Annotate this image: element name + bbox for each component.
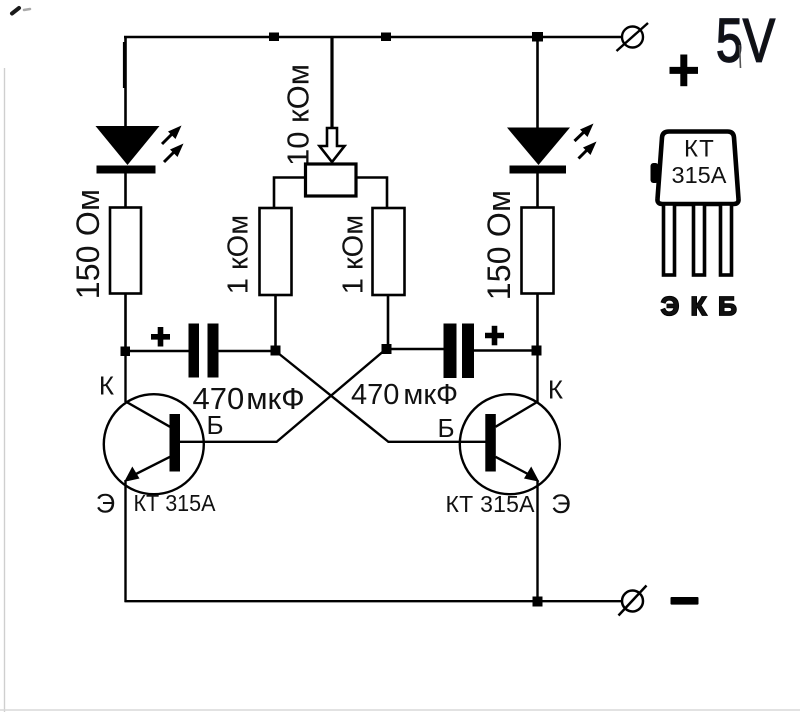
wire: R3 to node A3 <box>387 295 390 350</box>
LED D2 light arrows <box>575 124 597 159</box>
svg-text:Б: Б <box>437 413 454 443</box>
package leg E <box>664 204 675 275</box>
label: C1 polarity plus <box>151 327 170 347</box>
label: 470 mkF left <box>193 381 305 416</box>
node: top rail junction left <box>269 33 279 42</box>
wire: R1 to node A1 <box>124 294 127 353</box>
wire: cross diagonal A2 to right base <box>276 351 389 442</box>
label: 150 Om left <box>70 189 106 299</box>
node A2 <box>271 346 281 356</box>
wire: center stub from rail to pot arrow <box>330 37 333 130</box>
label: 5V <box>716 7 775 75</box>
node A4 <box>532 346 542 356</box>
label: KT inside package <box>684 136 715 163</box>
svg-text:315А: 315А <box>672 162 727 188</box>
node A3 <box>382 344 392 354</box>
wire: LED2 anode from rail <box>536 37 539 128</box>
node A1: left cap junction <box>121 347 131 357</box>
capacitor C2 470uF plates <box>444 324 475 379</box>
svg-text:К: К <box>548 375 563 405</box>
LED D2 <box>507 128 570 174</box>
label: 1 kOm right <box>338 215 370 294</box>
wire: Q2 collector up to node A4 <box>536 351 538 402</box>
label: K of Q2 <box>548 375 563 405</box>
label: B of Q1 <box>206 410 223 440</box>
wire: Q1 collector up to node A1 <box>124 351 126 402</box>
svg-text:КТ 315А: КТ 315А <box>134 490 217 516</box>
wire: C1 to node A2 <box>219 350 277 353</box>
svg-text:К: К <box>691 291 707 321</box>
label: K of Q1 <box>99 371 114 401</box>
wire: node A1 to C1 <box>125 350 189 353</box>
label: C2 polarity plus <box>485 326 504 346</box>
wire: pot right wing <box>358 178 388 209</box>
label: E of Q2 <box>551 489 570 519</box>
wire: LED2 cathode to R4 <box>536 173 539 208</box>
wire: R2 to node A2 <box>274 295 277 351</box>
wire: base line of Q2 <box>388 441 486 443</box>
svg-text:150 Ом: 150 Ом <box>481 190 517 300</box>
svg-text:5V: 5V <box>716 7 775 75</box>
svg-text:10 кОм: 10 кОм <box>281 64 316 166</box>
scan artifact: faint bottom border line <box>0 709 800 711</box>
wire: top +5V rail <box>124 36 622 39</box>
node: top rail junction right <box>381 33 391 42</box>
svg-text:Э: Э <box>551 489 570 519</box>
node: ground rail / Q2 emitter <box>533 597 543 607</box>
resistor R1 150 Om box <box>110 208 141 294</box>
label: 1 kOm left <box>223 215 255 294</box>
label: big minus of supply <box>671 597 699 605</box>
label: KT 315A right <box>446 491 536 517</box>
svg-text:470мкФ: 470мкФ <box>351 379 458 411</box>
LED D1 <box>96 126 160 174</box>
wire: base line of Q1 <box>180 441 278 443</box>
svg-text:Э: Э <box>96 489 115 519</box>
wire: node A3 to C2 <box>386 348 445 351</box>
package leg K <box>694 204 705 275</box>
label: KT 315A left <box>134 490 217 516</box>
wire: LED1 cathode to R1 <box>124 173 127 208</box>
wire: Q2 emitter down to ground rail <box>536 480 538 602</box>
resistor R4 150 Om box <box>522 208 554 294</box>
svg-text:1 кОм: 1 кОм <box>223 215 255 294</box>
node: top rail / LED2 branch <box>532 32 543 42</box>
svg-text:КТ 315А: КТ 315А <box>446 491 536 517</box>
label: E of Q1 <box>96 489 115 519</box>
wire: R4 to node A4 <box>536 294 539 352</box>
transistor package drawing KT315A <box>651 45 741 204</box>
svg-text:К: К <box>99 371 114 401</box>
package leg B <box>721 204 732 275</box>
label: big plus of supply <box>670 55 699 87</box>
svg-text:150 Ом: 150 Ом <box>70 189 106 299</box>
wire: ground rail <box>125 600 623 602</box>
scan artifact: faint left border line <box>4 68 6 712</box>
terminal: minus output <box>619 586 647 616</box>
svg-text:1 кОм: 1 кОм <box>338 215 370 294</box>
label: 150 Om right <box>481 190 517 300</box>
resistor R2 1 kOm box <box>260 208 292 295</box>
label: 470 mkF right <box>351 379 458 411</box>
capacitor C1 470uF plates <box>189 324 219 378</box>
transistor Q1 KT315A <box>104 394 204 494</box>
wire: C2 to node A4 <box>474 349 537 352</box>
wire: Q1 emitter down to ground rail <box>124 480 126 602</box>
terminal: +5V input <box>617 23 649 51</box>
LED D1 light arrows <box>162 126 184 163</box>
svg-text:Э: Э <box>661 291 680 321</box>
svg-text:Б: Б <box>206 410 223 440</box>
svg-text:Б: Б <box>718 291 737 321</box>
label: B of Q2 <box>437 413 454 443</box>
label: E K B pin names <box>661 291 737 321</box>
label: 10 kOm <box>281 64 316 166</box>
wire: cross diagonal A3 to left base <box>277 349 386 442</box>
resistor R3 1 kOm box <box>373 208 405 295</box>
label: 315A inside package <box>672 162 727 188</box>
wire: pot left wing <box>274 178 304 209</box>
potentiometer RP1 body <box>306 164 357 196</box>
svg-text:КТ: КТ <box>684 136 715 163</box>
wire: LED1 anode from rail <box>123 37 127 127</box>
potentiometer RP1 wiper arrow <box>320 128 345 162</box>
scan artifact: top-left corner mark <box>12 8 30 14</box>
transistor Q2 KT315A <box>460 394 560 494</box>
